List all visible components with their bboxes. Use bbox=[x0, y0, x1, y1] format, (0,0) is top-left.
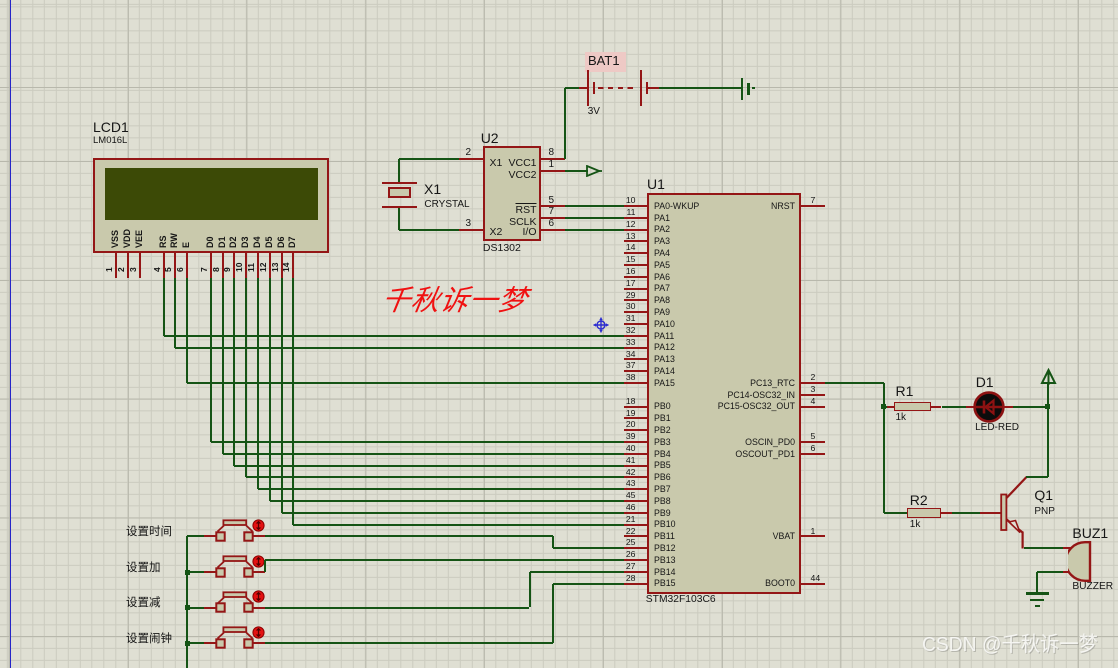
LCD1 pin 7 (D0) bbox=[206, 236, 215, 248]
wire LCD D7 to U1 PB10 bbox=[292, 278, 294, 525]
wire U2 I/O to U1 PA2 bbox=[565, 229, 624, 231]
U1 pin 39 (PB3) bbox=[624, 441, 647, 443]
LCD LCD1 body bbox=[93, 158, 329, 253]
junction bbox=[185, 641, 190, 646]
U1 pin 30 (PA9) bbox=[624, 311, 647, 313]
crystal X1 bbox=[382, 182, 417, 184]
wire Q1 emitter to buzzer bbox=[1024, 547, 1063, 549]
U1 pin 20 (PB2) bbox=[624, 429, 647, 431]
label BAT1 bbox=[588, 54, 620, 67]
LCD1 pin 14 (D7) bbox=[288, 236, 297, 248]
cell terminal symbol bbox=[741, 78, 743, 100]
wire crystal top to U2 X1 bbox=[398, 159, 400, 182]
push button SW set-time bbox=[214, 519, 256, 537]
LCD1 pin 1 (VSS) bbox=[111, 230, 120, 248]
sheet border (blue) bbox=[10, 0, 12, 668]
wire node A to R2 bbox=[884, 512, 907, 514]
U1 pin 22 (PB11) bbox=[624, 535, 647, 537]
ground bbox=[1026, 592, 1049, 594]
led D1 bbox=[966, 406, 977, 408]
wire LCD D5 to U1 PB8 bbox=[269, 278, 271, 502]
wire LCD D6 to U1 PB9 bbox=[281, 278, 283, 513]
U1 pin 29 (PA8) bbox=[624, 299, 647, 301]
LCD1 pin 12 (D5) bbox=[265, 236, 274, 248]
LCD1 pin 10 (D3) bbox=[241, 236, 250, 248]
value DS1302 bbox=[483, 243, 521, 254]
battery BAT1 cell 1 bbox=[587, 70, 590, 106]
label R2 bbox=[910, 493, 928, 507]
U1 pin 15 (PA5) bbox=[624, 264, 647, 266]
value 1k bbox=[910, 520, 921, 530]
wire Q1 collector to power rail bbox=[1026, 476, 1048, 478]
LCD1 pin 8 (D1) bbox=[218, 236, 227, 248]
wire LCD E to U1 PA15 bbox=[186, 278, 188, 384]
U1 pin 2 (PC13_RTC) bbox=[801, 382, 825, 384]
U1 pin 27 (PB14) bbox=[624, 571, 647, 573]
U1 pin 45 (PB8) bbox=[624, 500, 647, 502]
wire buzzer to ground bbox=[1037, 571, 1062, 573]
U2 pin 2 (X1) bbox=[459, 158, 483, 160]
origin crosshair marker bbox=[593, 317, 609, 333]
U1 pin 6 (OSCOUT_PD1) bbox=[801, 453, 825, 455]
label U1 bbox=[647, 177, 665, 191]
battery BAT1 highlight bbox=[585, 52, 626, 72]
U1 pin 28 (PB15) bbox=[624, 583, 647, 585]
IC U1 body bbox=[647, 193, 801, 594]
push button SW set-alarm bbox=[214, 626, 256, 644]
U1 pin 10 (PA0-WKUP) bbox=[624, 205, 647, 207]
U1 pin 3 (PC14-OSC32_IN) bbox=[801, 394, 825, 396]
wire U2 SCLK to U1 PA1 bbox=[565, 217, 624, 219]
resistor R2 bbox=[907, 508, 942, 518]
U2 pin 6 bbox=[541, 229, 565, 231]
wire LCD RW to U1 PA12 bbox=[174, 278, 176, 348]
label SW set-plus bbox=[126, 563, 161, 575]
push button SW set-plus bbox=[214, 555, 256, 573]
value PNP bbox=[1034, 507, 1055, 517]
wire button3 to U1 PB14 bbox=[265, 607, 530, 609]
watermark red bbox=[380, 287, 530, 316]
wire LCD D4 to U1 PB7 bbox=[257, 278, 259, 490]
wire LCD D3 to U1 PB6 bbox=[245, 278, 247, 478]
wire R2 to Q1 base bbox=[952, 512, 980, 514]
battery BAT1 cell 2 bbox=[640, 70, 643, 106]
U1 pin 37 (PA14) bbox=[624, 370, 647, 372]
U1 pin 21 (PB10) bbox=[624, 524, 647, 526]
U2 pin 5 bbox=[541, 205, 565, 207]
junction bbox=[185, 605, 190, 610]
push button SW set-minus bbox=[214, 591, 256, 609]
U1 pin 4 (PC15-OSC32_OUT) bbox=[801, 406, 825, 408]
U1 pin 18 (PB0) bbox=[624, 406, 647, 408]
battery BAT1 lead left bbox=[579, 87, 587, 89]
U1 pin 16 (PA6) bbox=[624, 276, 647, 278]
wire crystal bottom to U2 X2 bbox=[398, 208, 400, 230]
node B junction bbox=[1045, 404, 1050, 409]
LCD1 pin 11 (D4) bbox=[253, 236, 262, 248]
label X1 bbox=[424, 182, 441, 196]
U1 pin 14 (PA4) bbox=[624, 252, 647, 254]
battery BAT1 lead right bbox=[648, 87, 659, 89]
LCD1 pin 2 (VDD) bbox=[123, 229, 132, 248]
U2 pin 1 bbox=[541, 170, 565, 172]
LCD1 screen bbox=[105, 168, 318, 220]
label SW set-alarm bbox=[126, 634, 172, 646]
wire battery to cell terminal bbox=[659, 87, 741, 89]
U1 pin 17 (PA7) bbox=[624, 288, 647, 290]
wire LCD D0 to U1 PB3 bbox=[210, 278, 212, 443]
LCD1 pin 6 (E) bbox=[182, 242, 191, 248]
label BUZ1 bbox=[1072, 526, 1108, 540]
value CRYSTAL bbox=[424, 200, 469, 210]
U1 pin 26 (PB13) bbox=[624, 559, 647, 561]
value LED-RED bbox=[975, 423, 1019, 433]
wire button trunk bbox=[187, 535, 204, 537]
LCD1 pin 4 (RS) bbox=[159, 235, 168, 248]
LCD1 pin 3 (VEE) bbox=[135, 230, 144, 248]
battery BAT1 dashed link bbox=[598, 87, 634, 89]
U1 pin 19 (PB1) bbox=[624, 417, 647, 419]
U1 pin 32 (PA11) bbox=[624, 335, 647, 337]
resistor R1 bbox=[887, 406, 895, 408]
U1 pin 46 (PB9) bbox=[624, 512, 647, 514]
value 1k bbox=[896, 413, 907, 423]
U1 pin 42 (PB6) bbox=[624, 476, 647, 478]
label Q1 bbox=[1034, 488, 1053, 502]
value LM016L bbox=[93, 136, 127, 146]
junction bbox=[185, 570, 190, 575]
LCD1 pin 5 (RW) bbox=[170, 233, 179, 248]
wire button1 to U1 PB12 bbox=[265, 535, 553, 537]
watermark CSDN bbox=[922, 635, 1098, 656]
U1 pin 33 (PA12) bbox=[624, 347, 647, 349]
LCD1 pin 13 (D6) bbox=[277, 236, 286, 248]
U2 pin 8 bbox=[541, 158, 565, 160]
value 3V bbox=[588, 107, 600, 117]
wire U2 VCC1 to battery bbox=[564, 88, 566, 159]
wire D1 to power rail bbox=[1003, 406, 1013, 408]
node A junction bbox=[881, 404, 886, 409]
U1 pin 41 (PB5) bbox=[624, 465, 647, 467]
transistor Q1 bbox=[980, 512, 1002, 514]
U1 pin 31 (PA10) bbox=[624, 323, 647, 325]
label U2 bbox=[481, 131, 499, 145]
wire button2 to U1 PB13 bbox=[264, 560, 266, 572]
LCD1 pin 9 (D2) bbox=[229, 236, 238, 248]
wire LCD D2 to U1 PB5 bbox=[233, 278, 235, 466]
U1 pin 44 (BOOT0) bbox=[801, 583, 825, 585]
U1 pin 13 (PA3) bbox=[624, 240, 647, 242]
label D1 bbox=[976, 375, 994, 389]
U1 pin 1 (VBAT) bbox=[801, 535, 825, 537]
U1 pin 7 (NRST) bbox=[801, 205, 825, 207]
U2 pin 3 (X2) bbox=[459, 229, 483, 231]
label SW set-minus bbox=[126, 598, 161, 610]
wire power rail vertical bbox=[1047, 384, 1049, 477]
U2 pin 7 bbox=[541, 217, 565, 219]
wire U2 VCC2 to power terminal bbox=[565, 170, 588, 172]
IC U2 body bbox=[483, 146, 542, 241]
label SW set-time bbox=[126, 527, 172, 539]
wire LCD D1 to U1 PB4 bbox=[222, 278, 224, 454]
U1 pin 43 (PB7) bbox=[624, 488, 647, 490]
wire U1 PC13 to node A bbox=[825, 382, 884, 384]
wire U2 RST to U1 PA0 bbox=[565, 205, 624, 207]
value BUZZER bbox=[1072, 582, 1113, 592]
wire R1 to D1 bbox=[942, 406, 967, 408]
label LCD1 bbox=[93, 120, 129, 134]
wire LCD RS to U1 PA11 bbox=[163, 278, 165, 336]
label R1 bbox=[896, 384, 914, 398]
U1 pin 25 (PB12) bbox=[624, 547, 647, 549]
value STM32F103C6 bbox=[646, 595, 716, 605]
U1 pin 5 (OSCIN_PD0) bbox=[801, 441, 825, 443]
U1 pin 12 (PA2) bbox=[624, 229, 647, 231]
U1 pin 34 (PA13) bbox=[624, 358, 647, 360]
power terminal (up arrow) bbox=[1040, 368, 1057, 385]
U1 pin 11 (PA1) bbox=[624, 217, 647, 219]
U1 pin 38 (PA15) bbox=[624, 382, 647, 384]
U1 pin 40 (PB4) bbox=[624, 453, 647, 455]
wire node A to R1 bbox=[884, 406, 888, 408]
power terminal (right arrow) bbox=[586, 165, 602, 177]
wire button4 to U1 PB15 bbox=[265, 642, 553, 644]
buzzer BUZ1 bbox=[1063, 547, 1073, 549]
